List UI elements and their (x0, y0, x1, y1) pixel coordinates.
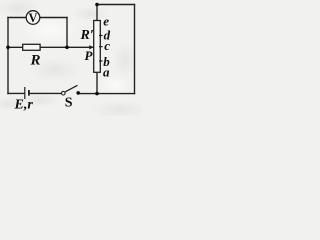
svg-text:P: P (85, 48, 94, 63)
tap tick d (99, 35, 103, 37)
junction node top of rheostat (95, 3, 99, 7)
wire bottom-right (78, 93, 134, 95)
switch S terminal node (76, 91, 80, 95)
svg-text:R′: R′ (80, 28, 94, 43)
wire slider lead (67, 46, 90, 48)
svg-text:E,r: E,r (14, 97, 34, 112)
voltmeter V1 (26, 11, 40, 25)
svg-text:a: a (103, 65, 110, 80)
tap tick b (99, 60, 103, 62)
wire right rail (134, 5, 136, 94)
svg-text:R: R (30, 53, 41, 69)
slider arrow P (89, 46, 94, 48)
wire voltmeter to right corner (40, 17, 67, 19)
svg-text:V: V (29, 11, 38, 25)
wire top-right (97, 4, 135, 6)
wire R branch left (8, 46, 23, 48)
switch S pivot (62, 91, 66, 95)
svg-text:e: e (103, 14, 109, 29)
svg-text:c: c (104, 38, 110, 53)
wire rheostat bottom lead (96, 72, 98, 93)
wire R branch right (40, 46, 67, 48)
tap tick c (99, 46, 103, 48)
battery E,r long plate (24, 87, 26, 99)
svg-text:S: S (65, 95, 73, 110)
junction node left (6, 46, 10, 50)
wire bottom-left to battery (8, 92, 24, 94)
resistor R (23, 44, 40, 50)
wire left rail (7, 18, 9, 94)
wire top-left to voltmeter (8, 17, 26, 19)
rheostat R' body (94, 21, 101, 73)
wire battery to switch (30, 92, 62, 94)
junction node bottom of rheostat (95, 92, 99, 96)
wire rheostat top lead (96, 5, 98, 21)
wire voltmeter right rail down (66, 18, 68, 48)
junction node right of R (65, 46, 69, 50)
battery E,r short plate (28, 90, 30, 96)
paper background (0, 0, 142, 116)
switch S lever (65, 85, 77, 92)
